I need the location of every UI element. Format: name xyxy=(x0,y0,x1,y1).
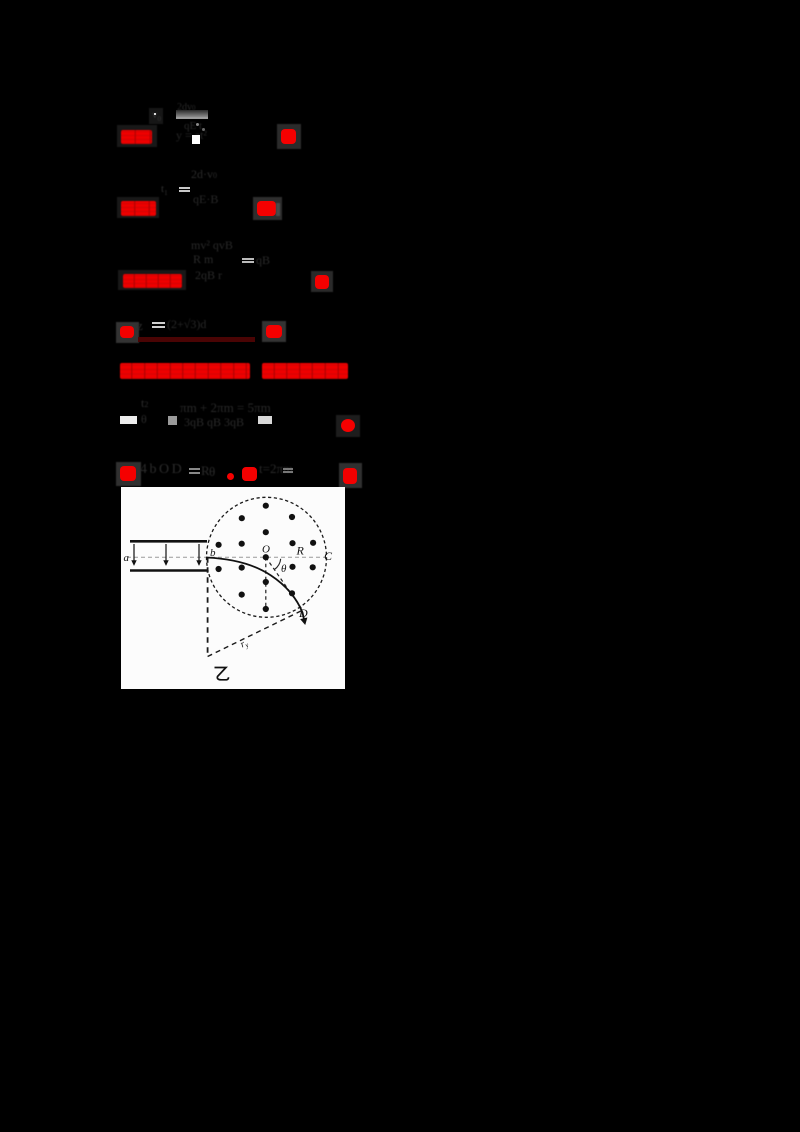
svg-text:C: C xyxy=(324,549,333,563)
svg-text:θ: θ xyxy=(281,563,287,575)
svg-text:b: b xyxy=(210,547,216,559)
svg-text:R: R xyxy=(296,544,305,558)
svg-text:a: a xyxy=(124,552,130,564)
svg-text:D: D xyxy=(298,606,308,620)
svg-text:O: O xyxy=(262,544,270,556)
